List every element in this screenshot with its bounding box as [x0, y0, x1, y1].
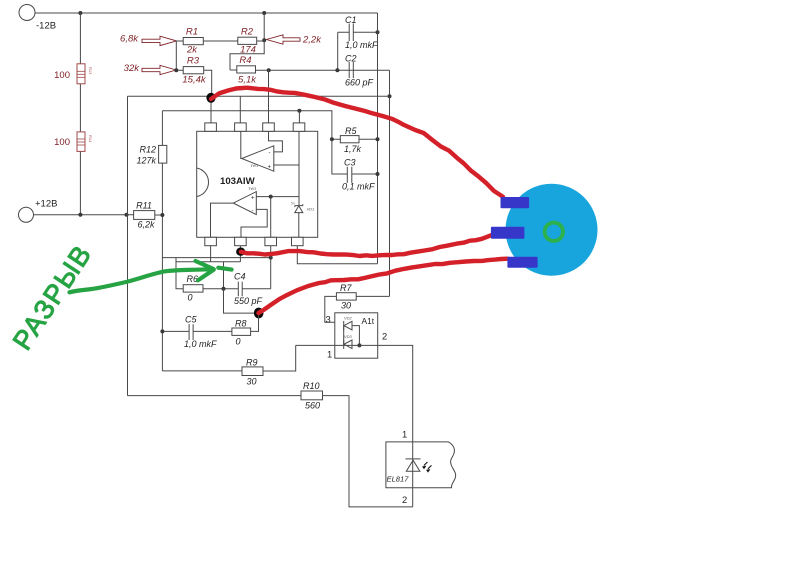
svg-text:C4: C4	[234, 272, 246, 282]
svg-text:R14: R14	[88, 135, 93, 143]
node blob R8	[254, 308, 264, 319]
svg-text:2: 2	[382, 331, 387, 342]
svg-text:5n: 5n	[291, 202, 295, 206]
svg-text:R4: R4	[239, 55, 251, 66]
terminal -12B	[19, 5, 56, 32]
svg-text:1,7k: 1,7k	[344, 144, 362, 154]
node C3 right	[376, 172, 380, 176]
wire outer box top edge	[128, 95, 390, 97]
svg-text:EL817: EL817	[387, 475, 410, 484]
pin 7 bottom	[265, 237, 277, 245]
svg-text:1,0 mkF: 1,0 mkF	[184, 339, 217, 349]
svg-text:C2: C2	[345, 54, 357, 64]
wire op-amp B output to pin5	[211, 203, 234, 237]
wire A1t row y345	[296, 345, 413, 442]
svg-text:5,1k: 5,1k	[238, 75, 257, 86]
wire dogleg R2 to R4	[230, 40, 264, 70]
wire junction down to pin7	[270, 197, 272, 238]
wire vertical top to R2 node	[263, 13, 265, 40]
wire op-amp A minus step to pin3	[269, 131, 283, 152]
svg-text:30: 30	[341, 301, 351, 311]
wire R4 left lead	[230, 69, 237, 71]
node pin4 top	[297, 109, 301, 113]
svg-text:R7: R7	[340, 283, 352, 293]
svg-text:1: 1	[327, 349, 332, 360]
svg-text:+: +	[268, 165, 272, 171]
node op-amp B plus junction	[269, 195, 273, 199]
node R2 output	[262, 38, 266, 42]
wire pin7 down to C4 right	[270, 246, 272, 289]
resistor R6 0	[183, 274, 203, 303]
wire inner top edge y111	[162, 111, 332, 139]
wire R7 left to A1t pin3	[325, 296, 344, 322]
capacitor C1 1,0 mkF	[338, 15, 378, 50]
wire C1 left branch down	[337, 32, 339, 70]
resistor R7 30	[336, 283, 356, 311]
svg-text:C5: C5	[185, 315, 197, 325]
node top-left junction	[78, 11, 82, 15]
svg-text:R1: R1	[186, 27, 198, 38]
wire op-amp B minus step to pin6	[241, 209, 267, 237]
resistor R2 174	[238, 27, 257, 56]
op-amp A top triangle	[242, 146, 274, 171]
wire R4 right to C2 rail	[256, 69, 390, 71]
svg-text:R9: R9	[246, 358, 258, 368]
wire step down to R6 wire	[223, 262, 225, 289]
svg-text:R13: R13	[88, 67, 93, 75]
label 32k with arrow	[124, 63, 176, 75]
resistor R1 2k	[183, 27, 203, 56]
svg-text:30: 30	[247, 377, 257, 387]
svg-text:6,2k: 6,2k	[137, 220, 155, 230]
wire R1 left down to R3	[176, 41, 183, 70]
zener diode VD1	[291, 202, 314, 238]
svg-text:+: +	[251, 196, 255, 202]
svg-text:-12B: -12B	[36, 21, 56, 32]
node C1 branch bottom	[335, 68, 339, 72]
wire +12B rail	[34, 214, 134, 216]
node VD3 output	[357, 343, 361, 347]
wire R2 right to arrow node	[257, 40, 266, 42]
wire red marker 1	[211, 88, 503, 197]
wire pin1 top drop	[210, 95, 212, 123]
svg-text:1,0 mkF: 1,0 mkF	[345, 40, 378, 50]
svg-text:DA1: DA1	[247, 187, 256, 192]
wire R7 right to rail	[356, 295, 389, 297]
resistor R8 0	[232, 319, 251, 347]
resistor R13 100	[54, 64, 93, 84]
svg-text:-: -	[252, 209, 254, 215]
wire top rail	[35, 12, 378, 14]
svg-text:R12: R12	[139, 145, 156, 155]
wire red marker 2	[241, 235, 492, 256]
resistor R4 5,1k	[237, 55, 257, 86]
green arrowhead	[196, 261, 214, 280]
svg-text:-: -	[269, 151, 271, 157]
wire pin4 top drop	[298, 111, 300, 123]
label 6,8k with arrow	[120, 34, 176, 46]
svg-text:6,8k: 6,8k	[120, 34, 139, 45]
op-amp IC U1 103AIW body	[197, 131, 318, 237]
pin 5 bottom	[205, 237, 217, 245]
svg-text:R11: R11	[136, 201, 152, 211]
svg-text:32k: 32k	[124, 63, 141, 74]
motor terminal 3 (blue rect)	[507, 257, 537, 268]
pin 8 bottom	[292, 237, 304, 245]
capacitor C5 1,0 mkF	[184, 315, 217, 350]
pin 4 top	[293, 123, 305, 131]
wire op-amp A output to pin2	[240, 131, 243, 158]
svg-text:3: 3	[326, 314, 331, 325]
svg-text:0: 0	[236, 337, 241, 347]
svg-text:0: 0	[188, 293, 193, 303]
svg-text:103AIW: 103AIW	[220, 176, 256, 187]
resistor R9 30	[242, 358, 263, 387]
wire R9 row	[162, 345, 295, 371]
node R4 right	[267, 68, 271, 72]
svg-text:VD1: VD1	[307, 207, 315, 212]
svg-text:100: 100	[54, 137, 70, 148]
capacitor C3 0,1 mkF	[342, 158, 378, 192]
wire small step below IC	[176, 261, 240, 263]
wire right rail x377	[377, 13, 379, 264]
resistor R11 6,2k	[134, 201, 155, 230]
svg-text:15,4k: 15,4k	[182, 75, 206, 86]
wire R11 right lead	[155, 214, 163, 216]
capacitor C2 660 pF	[345, 54, 374, 88]
svg-text:2k: 2k	[186, 45, 198, 56]
svg-text:0,1 mkF: 0,1 mkF	[342, 182, 375, 192]
pin 3 top	[263, 123, 275, 131]
svg-text:R10: R10	[303, 381, 320, 391]
IC notch arc	[197, 168, 209, 197]
svg-text:VD3: VD3	[344, 334, 353, 339]
diode VD3	[344, 334, 353, 349]
motor terminal 1 (blue rect)	[501, 197, 530, 208]
wire VD2 anode step	[352, 326, 359, 346]
wire EL817 through	[412, 442, 414, 507]
wire C4 box down to blob	[224, 289, 259, 313]
svg-text:C1: C1	[345, 15, 357, 25]
diode VD2	[344, 316, 353, 331]
pin 2 top	[235, 123, 247, 131]
label 2,2k with arrow	[267, 35, 323, 46]
svg-text:1: 1	[402, 429, 407, 440]
node C5 left rail	[160, 329, 164, 333]
wire rail x162	[161, 111, 163, 371]
wire R1-R2	[203, 40, 238, 42]
node R5 left	[330, 137, 334, 141]
resistor R14 100	[54, 132, 93, 152]
optocoupler EL817 box with torn edge	[386, 442, 456, 488]
svg-text:C3: C3	[344, 158, 356, 168]
pin 6 bottom	[235, 237, 247, 245]
svg-text:560: 560	[305, 401, 320, 411]
capacitor C4 550 pF	[234, 272, 271, 307]
wire op-amp A plus to pin4 rail	[274, 131, 299, 205]
wire op-amp B plus wire	[256, 196, 299, 198]
wire R5-C3 left link	[332, 139, 347, 174]
motor shaft ring (green)	[545, 223, 563, 241]
wire left -12B rail down	[79, 13, 81, 215]
svg-text:DA1: DA1	[249, 164, 258, 169]
resistor R10 560	[301, 381, 323, 411]
wire below IC horizontal y257.6	[162, 257, 270, 259]
svg-text:R5: R5	[345, 126, 357, 136]
wire pin5 down	[210, 246, 212, 262]
wire R6 left riser	[176, 258, 183, 289]
op-amp B bottom triangle	[233, 192, 256, 215]
svg-text:R8: R8	[235, 319, 247, 329]
wire rail x389 C2 to R7	[389, 70, 391, 296]
node +12B junctions	[78, 213, 82, 217]
resistor R12 127k	[136, 145, 166, 166]
svg-text:R3: R3	[187, 56, 200, 67]
wire R3 right down to node	[204, 70, 212, 95]
svg-text:R2: R2	[241, 27, 254, 38]
wire pin8 dogleg to rail	[297, 246, 377, 264]
svg-text:A1t: A1t	[362, 316, 375, 326]
node rail x389 top wire	[388, 94, 392, 98]
svg-text:100: 100	[54, 70, 70, 81]
svg-text:VD2: VD2	[344, 316, 353, 321]
wire R4 node down to pin3 top	[268, 70, 270, 123]
node R11 right rail	[160, 213, 164, 217]
wire VD2-VD3 left link	[343, 326, 345, 345]
svg-text:R6: R6	[187, 274, 199, 284]
wire R10 row	[128, 396, 413, 507]
node C1 right on rail	[376, 30, 380, 34]
resistor R5 1,7k	[332, 126, 378, 154]
pin 1 top	[205, 123, 217, 131]
node top R2 junction	[262, 11, 266, 15]
terminal +12B	[19, 199, 58, 223]
green dash	[218, 268, 231, 270]
node R6-C4 junction	[222, 287, 226, 291]
node blob pin6	[236, 248, 245, 256]
motor body (blue)	[506, 184, 598, 276]
svg-text:2,2k: 2,2k	[302, 35, 322, 46]
wire blob down to R8	[251, 313, 259, 331]
wire C5-R8 row	[162, 330, 232, 332]
wire pin2 top drop	[239, 96, 241, 123]
wire R1 left lead	[176, 40, 183, 42]
node blob R3 output	[206, 93, 215, 103]
wire R6 right to C4	[203, 288, 238, 290]
node R5 right	[376, 137, 380, 141]
motor terminal 2 (blue rect)	[491, 227, 525, 239]
svg-text:+12B: +12B	[35, 199, 57, 210]
svg-text:2: 2	[402, 494, 407, 505]
svg-text:127k: 127k	[136, 156, 156, 166]
green annotation arrow	[70, 269, 211, 292]
resistor R3 15,4k	[182, 56, 206, 86]
svg-text:550 pF: 550 pF	[234, 296, 263, 306]
wire red marker 3	[259, 259, 508, 313]
wire outer box left edge	[127, 96, 129, 395]
svg-text:660 pF: 660 pF	[345, 78, 374, 88]
LED D1 inside EL817	[406, 459, 432, 472]
node R3 left	[174, 68, 178, 72]
wire pin6 down through blob	[239, 246, 241, 262]
node wire A right	[269, 256, 273, 260]
optocoupler A1t box	[335, 313, 378, 358]
